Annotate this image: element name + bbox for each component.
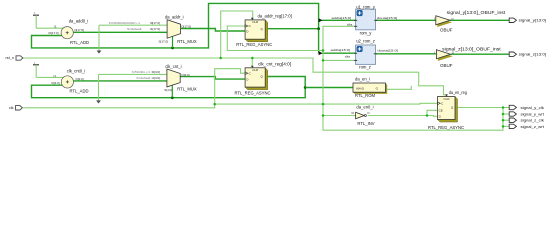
svg-text:RTL_INV: RTL_INV — [357, 121, 374, 126]
register da_addr_reg — [236, 13, 292, 47]
output port signal_z — [509, 52, 546, 57]
svg-text:O[4:0]: O[4:0] — [181, 73, 189, 77]
node junction clk to rom_z clka — [322, 59, 325, 62]
svg-text:O[4:0]: O[4:0] — [75, 77, 83, 81]
output port signal_y_clk — [509, 105, 544, 110]
wire mux I0 feed upper with continuation arrow — [99, 24, 167, 26]
svg-text:I0[4:0]: I0[4:0] — [152, 70, 161, 74]
svg-text:CE: CE — [439, 109, 443, 113]
svg-text:S[17:0]: S[17:0] — [158, 40, 168, 44]
inverter da_en0_i — [351, 105, 374, 126]
wire adder clk_cnt0_i output to mux I1 — [73, 80, 167, 82]
svg-text:S=18'b000000110101000010 + I:1: S=18'b000000110101000010 + I:1 — [109, 21, 141, 25]
svg-text:signal_z_clk: signal_z_clk — [521, 119, 545, 123]
svg-text:RTL_ADD: RTL_ADD — [69, 89, 88, 94]
wire addra rom_z from net da_addr — [322, 52, 356, 54]
adder clk_cnt0_i — [51, 68, 88, 93]
svg-text:RTL_MUX: RTL_MUX — [177, 87, 197, 92]
wire clk to inverter da_en0_i input — [323, 115, 356, 117]
node junction clk to reg1 C — [322, 49, 325, 52]
wire da_en_i O output — [386, 86, 412, 90]
svg-text:I1: I1 — [54, 24, 57, 28]
node junction da_addr Q — [317, 27, 320, 30]
svg-text:signal_z[13:0]: signal_z[13:0] — [519, 53, 546, 57]
svg-text:signal_y[13:0]_OBUF_inst: signal_y[13:0]_OBUF_inst — [447, 10, 506, 15]
node junction rst at reg2 CLR — [251, 57, 254, 60]
register da_en_reg — [428, 90, 467, 130]
svg-text:signal_y_wrt: signal_y_wrt — [521, 112, 545, 116]
svg-text:u1_rom_y: u1_rom_y — [356, 5, 376, 10]
wire clk_cnt to da_en_i A input — [305, 87, 353, 89]
node junction clk_cnt branch to da_en_i — [304, 86, 307, 89]
rom da_en_i — [353, 76, 387, 98]
svg-text:signal_z[13:0]_OBUF_inst: signal_z[13:0]_OBUF_inst — [442, 46, 501, 51]
node junction clk rail reg2 C — [213, 103, 216, 106]
rom block u2_rom_z — [331, 38, 399, 69]
net continuation arrow down (upper) — [97, 51, 102, 54]
svg-text:S=default: S=default — [127, 27, 142, 31]
wire mux da_addr_i select drop — [172, 36, 174, 48]
svg-text:da_en_reg: da_en_reg — [449, 90, 468, 95]
output port signal_y — [509, 18, 546, 23]
wire addra rom_y from net da_addr — [322, 19, 356, 21]
svg-text:RTL_ADD: RTL_ADD — [70, 40, 89, 45]
svg-text:RTL_REG_ASYNC: RTL_REG_ASYNC — [428, 125, 464, 130]
svg-text:I1[4:0]: I1[4:0] — [152, 76, 161, 80]
node junction da_addr at mux select rail — [171, 47, 174, 50]
node junction inverter out branch — [426, 114, 429, 117]
node junctions output column — [502, 106, 505, 109]
wire clk rail — [23, 103, 438, 108]
svg-text:RTL_REG_ASYNC: RTL_REG_ASYNC — [236, 42, 272, 47]
output port signal_y_wrt — [509, 112, 545, 117]
wire bold net clk_cnt feedback loop — [32, 77, 306, 98]
output port signal_z_wrt — [509, 124, 545, 129]
svg-text:da_en0_i: da_en0_i — [356, 105, 373, 110]
pin arrow into rom_y addra — [319, 18, 323, 22]
svg-text:I0[4:0]: I0[4:0] — [51, 81, 60, 85]
svg-text:da_addr_i: da_addr_i — [165, 15, 184, 20]
svg-text:I1: I1 — [53, 74, 56, 78]
wire signal_z OBUF output to port — [451, 53, 510, 55]
svg-text:I0: I0 — [351, 111, 354, 115]
svg-text:RTL_ROM: RTL_ROM — [355, 93, 375, 98]
svg-text:clk_cnt0_i: clk_cnt0_i — [67, 68, 86, 73]
svg-text:CLR: CLR — [252, 68, 259, 72]
svg-text:rst_n: rst_n — [6, 56, 14, 60]
node junction clk to inverter — [322, 114, 325, 117]
svg-text:douta[15:0]: douta[15:0] — [377, 16, 398, 20]
svg-text:signal_z_wrt: signal_z_wrt — [521, 125, 545, 129]
rom block u1_rom_y — [332, 5, 398, 36]
wire output port taps — [503, 107, 509, 109]
wire bold net da_addr feedback loop — [32, 3, 319, 53]
input port rst_n — [6, 56, 23, 60]
wire da_addr_reg Q to junction — [265, 28, 318, 30]
adder da_add0_i — [48, 18, 89, 45]
svg-text:signal_y[13:0]: signal_y[13:0] — [519, 19, 546, 23]
node junction rst at reg1 CLR — [219, 57, 222, 60]
svg-text:clka: clka — [347, 23, 353, 27]
wire clk to da_addr_reg C — [227, 26, 323, 51]
wire signal_y OBUF output to port — [450, 19, 509, 21]
svg-text:O[17:0]: O[17:0] — [181, 24, 191, 28]
svg-text:I0[17:0]: I0[17:0] — [150, 21, 160, 25]
buffer OBUF signal_z — [434, 46, 501, 68]
svg-text:OBUF: OBUF — [440, 63, 453, 68]
wire rst to da_addr_reg CLR — [221, 11, 253, 58]
svg-text:CLR: CLR — [443, 97, 450, 101]
svg-text:I1[17:0]: I1[17:0] — [150, 27, 160, 31]
svg-text:da_add0_i: da_add0_i — [69, 18, 89, 23]
svg-text:u2_rom_z: u2_rom_z — [356, 38, 375, 43]
output port signal_z_clk — [509, 118, 544, 123]
node junction clk_cnt at mux select rail — [171, 96, 174, 99]
power constant tie T symbol upper — [33, 11, 64, 28]
mux da_addr_i — [109, 15, 197, 44]
input port clk — [9, 106, 23, 110]
wire adder da_add0_i output to mux I1 — [73, 31, 167, 33]
wire clk to rom_z clka — [323, 59, 356, 61]
svg-text:rom_y: rom_y — [360, 31, 373, 36]
svg-text:CLR: CLR — [252, 20, 259, 24]
svg-text:clk_cnt_reg[4:0]: clk_cnt_reg[4:0] — [258, 61, 291, 66]
svg-text:I0[17:0]: I0[17:0] — [48, 31, 58, 35]
wire mux da_addr_i output to register D — [181, 29, 246, 32]
wire clk vertical distribution — [323, 26, 503, 130]
net continuation arrow down (lower) — [96, 100, 101, 103]
svg-text:O[17:0]: O[17:0] — [74, 28, 84, 32]
svg-text:RTL_REG_ASYNC: RTL_REG_ASYNC — [235, 90, 271, 95]
svg-text:RTL_MUX: RTL_MUX — [177, 39, 197, 44]
wire inverter output to CE and D of da_en_reg — [368, 115, 438, 118]
svg-text:da_en_i: da_en_i — [355, 76, 370, 81]
wire clk to clk_cnt_reg C — [215, 69, 245, 104]
svg-text:rom_z: rom_z — [359, 65, 371, 70]
svg-text:clk: clk — [9, 106, 14, 110]
svg-text:da_addr_reg[17:0]: da_addr_reg[17:0] — [258, 13, 292, 18]
svg-text:A[4:0]: A[4:0] — [356, 87, 364, 91]
power constant tie T symbol lower — [33, 61, 64, 78]
wire rst_n rail — [23, 58, 447, 97]
svg-text:addra[15:0]: addra[15:0] — [331, 48, 351, 52]
svg-text:S[4:0]: S[4:0] — [164, 88, 172, 92]
wire mux clk_cnt_i output to register D — [180, 77, 245, 80]
svg-text:douta[15:0]: douta[15:0] — [377, 49, 398, 53]
register clk_cnt_reg — [235, 61, 292, 95]
svg-text:signal_y_clk: signal_y_clk — [521, 106, 545, 110]
wire mux clk_cnt_i select drop — [171, 85, 173, 98]
svg-text:addra[15:0]: addra[15:0] — [332, 16, 352, 20]
wire rom_z douta to OBUF — [375, 53, 436, 55]
mux clk_cnt_i — [132, 64, 197, 92]
wire rom_y douta to OBUF — [376, 19, 436, 21]
svg-text:S=5'b01011 + I:1: S=5'b01011 + I:1 — [132, 70, 151, 74]
svg-text:I: I — [434, 16, 435, 20]
svg-text:S=default: S=default — [136, 76, 150, 80]
wire rst to clk_cnt_reg CLR — [251, 58, 253, 68]
pin arrow into rom_z addra — [319, 51, 323, 55]
svg-text:OBUF: OBUF — [440, 27, 453, 32]
svg-text:clka: clka — [345, 54, 351, 58]
wire mux I0 feed lower with continuation arrow — [99, 73, 167, 75]
svg-text:clk_cnt_i: clk_cnt_i — [165, 64, 181, 69]
buffer OBUF signal_y — [434, 10, 506, 32]
wire da_en_reg Q to output column — [455, 107, 503, 109]
node junction clk rail crossing — [322, 103, 325, 106]
